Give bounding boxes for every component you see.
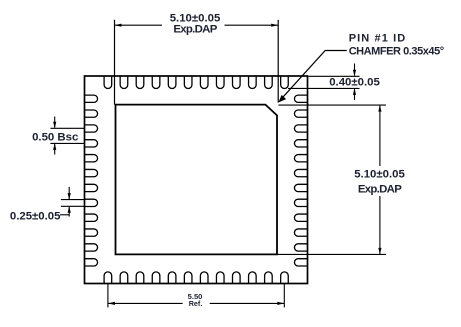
pad left 6 [85,169,98,176]
arrowhead left of bottom 5.50 dimension [108,302,115,305]
arrowhead left of top 5.10 dimension [115,24,122,27]
pad bottom 3 [136,272,144,284]
pad left 10 [85,229,98,236]
exposed DAP (Exp.DAP) with pin #1 ID chamfer at top-right [116,105,278,255]
extension line right of bottom 5.50 dimension (pad 12 centerline) [283,284,285,308]
dimension line top 5.10 right segment [225,24,279,26]
pad right 9 [294,214,307,221]
extension line bottom of right 5.10 dimension [277,253,386,255]
extension line upper of 0.25 dimension (pad 8 top edge) [61,199,85,201]
extension line lower of 0.50 Bsc (pad 4 centerline) [50,142,84,144]
pad right 10 [294,229,307,236]
arrow stem below 0.50 Bsc [54,144,56,155]
arrowhead right of top 5.10 dimension [271,24,278,27]
pad bottom 10 [249,272,257,284]
arrow stem below 0.25 [68,207,70,217]
pad right 4 [294,140,307,147]
arrowhead down to 0.25 upper line [68,193,71,200]
pad right 2 [294,110,307,117]
dimension line bottom 5.50 right segment [210,302,285,304]
arrowhead down to 0.50 upper line [53,122,56,129]
extension line lower of 0.40 dimension (pad inner end) [288,87,360,89]
dimension line right 5.10 lower segment [379,196,381,254]
extension line left of bottom 5.50 dimension (pad 1 centerline) [107,284,109,308]
pad top 10 [249,76,257,89]
pad top 9 [233,76,241,89]
pad left 1 [85,95,98,102]
leader from 0.25 label to arrow stem [60,214,69,216]
svg-text:CHAMFER 0.35x45°: CHAMFER 0.35x45° [349,45,444,57]
pad top 6 [184,76,192,89]
arrow stem above 0.25 [68,187,70,199]
pad left 9 [85,214,98,221]
svg-text:0.25±0.05: 0.25±0.05 [10,210,61,222]
pad bottom 4 [152,272,160,284]
pad top 2 [120,76,128,89]
pad right 3 [294,125,307,132]
svg-text:Exp.DAP: Exp.DAP [173,23,217,35]
arrowhead down to 0.40 upper line [353,70,356,77]
dimension line top 5.10 left segment [115,24,163,26]
pad left 11 [85,244,98,251]
svg-text:0.40±0.05: 0.40±0.05 [329,77,380,89]
extension line upper of 0.40 dimension (body top edge) [309,75,360,77]
arrowhead up to 0.50 lower line [53,143,56,150]
pad left 3 [85,125,98,132]
pad bottom 7 [200,272,208,284]
pad top 1 [104,76,112,89]
leader arrowhead at chamfer [278,95,286,103]
pad left 8 [85,199,98,206]
pad top 12 [281,76,289,89]
pad bottom 5 [168,272,176,284]
arrowhead right of bottom 5.50 dimension [277,302,284,305]
pad left 7 [85,184,98,191]
pad right 12 [294,259,307,266]
pad bottom 11 [265,272,273,284]
leader line to pin #1 chamfer [281,51,347,100]
package body outline [85,76,308,284]
extension line left of top 5.10 dimension [114,20,116,105]
arrow stem below 0.40 [354,89,356,100]
svg-text:0.50 Bsc: 0.50 Bsc [32,131,78,143]
pad left 2 [85,110,98,117]
pad bottom 6 [184,272,192,284]
dimension line bottom 5.50 left segment [108,302,183,304]
pad bottom 9 [233,272,241,284]
svg-text:5.10±0.05: 5.10±0.05 [354,168,405,180]
arrowhead up to 0.40 lower line [353,88,356,95]
dimension line right 5.10 upper segment [379,105,381,166]
svg-text:PIN #1 ID: PIN #1 ID [349,33,407,45]
extension line right of top 5.10 dimension [277,20,279,103]
pad bottom 2 [120,272,128,284]
pad top 7 [200,76,208,89]
pad left 5 [85,155,98,162]
pad right 1 [294,95,307,102]
pad right 7 [294,184,307,191]
pad bottom 1 [104,272,112,284]
pad top 5 [168,76,176,89]
pad right 5 [294,155,307,162]
svg-text:Ref.: Ref. [189,299,203,308]
pad top 8 [216,76,224,89]
extension line lower of 0.25 dimension (pad 8 bottom edge) [61,205,85,207]
pad left 12 [85,259,98,266]
pad top 11 [265,76,273,89]
pad top 4 [152,76,160,89]
svg-text:Exp.DAP: Exp.DAP [358,183,402,195]
pad bottom 12 [281,272,289,284]
pad bottom 8 [216,272,224,284]
arrow stem above 0.50 Bsc [54,117,56,128]
extension line top of right 5.10 dimension [279,104,387,106]
pad right 11 [294,244,307,251]
arrowhead up to 0.25 lower line [68,206,71,213]
arrow stem above 0.40 [354,64,356,76]
arrowhead up of right 5.10 dimension [378,105,381,112]
arrowhead down of right 5.10 dimension [378,248,381,255]
extension line upper of 0.50 Bsc (pad 3 centerline) [50,127,84,129]
pad left 4 [85,140,98,147]
pad top 3 [136,76,144,89]
pad right 6 [294,169,307,176]
pad right 8 [294,199,307,206]
